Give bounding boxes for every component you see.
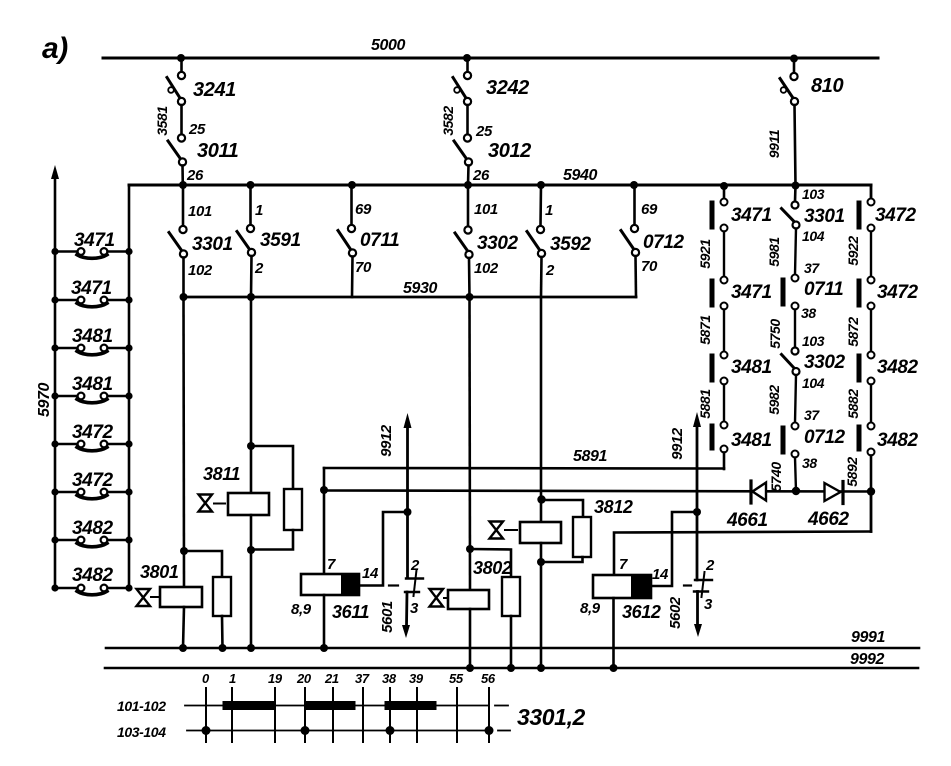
wire coil bottom to 9992	[540, 543, 543, 668]
wire 3592 column below 5930	[540, 297, 543, 522]
svg-text:3301,2: 3301,2	[517, 704, 586, 730]
wire stem 3302	[467, 185, 470, 226]
node cam 38	[386, 726, 395, 735]
node 3812 branch	[537, 495, 545, 503]
cam tick 0	[205, 688, 207, 742]
svg-text:5882: 5882	[845, 389, 861, 419]
wire branch to resistor	[470, 549, 511, 577]
svg-text:21: 21	[324, 671, 339, 686]
svg-text:3241: 3241	[193, 79, 236, 101]
svg-text:5921: 5921	[697, 239, 713, 269]
svg-text:103: 103	[802, 186, 825, 202]
wire branch to resistor top	[541, 500, 583, 517]
wire dash to socket	[389, 584, 398, 586]
wire coil bottom	[250, 515, 253, 648]
svg-text:3481: 3481	[731, 357, 772, 378]
svg-text:55: 55	[449, 671, 464, 686]
node 5930/3301	[180, 293, 188, 301]
socket contact 2-3	[405, 570, 423, 596]
contact 3481	[712, 352, 728, 385]
wire coil bottom to 9992	[612, 598, 615, 668]
svg-text:3482: 3482	[877, 430, 919, 451]
svg-text:5981: 5981	[766, 237, 782, 267]
wire 5891 corner down to coil	[323, 468, 326, 574]
svg-text:5750: 5750	[767, 319, 783, 349]
contact 3482	[859, 423, 875, 456]
svg-text:3802: 3802	[473, 558, 512, 578]
cam tick 20	[304, 688, 306, 742]
node 3811 bottom branch	[247, 546, 255, 554]
svg-text:25: 25	[475, 123, 493, 140]
node 9912R/14	[693, 508, 701, 516]
svg-text:101-102: 101-102	[117, 698, 166, 714]
svg-text:2: 2	[705, 557, 715, 574]
cam tick 39	[416, 688, 418, 742]
wire line 103-104	[187, 730, 492, 732]
svg-text:56: 56	[481, 671, 496, 686]
svg-text:3472: 3472	[877, 282, 919, 303]
svg-text:9911: 9911	[766, 129, 782, 158]
svg-text:101: 101	[188, 203, 212, 220]
svg-text:3481: 3481	[731, 430, 772, 451]
wire 3592 to bus 5930	[540, 257, 543, 297]
wire 3582	[466, 105, 469, 135]
wire diode line	[324, 491, 871, 492]
svg-text:3591: 3591	[260, 230, 301, 251]
coil 3611	[301, 574, 359, 595]
contact 3482	[859, 352, 875, 385]
contact 3472 rung5	[51, 440, 132, 450]
node 3812 bottom branch	[537, 558, 545, 566]
node 9991/3611	[320, 644, 328, 652]
wire resistor to 9992	[510, 616, 513, 668]
wire dash to socket	[684, 584, 691, 586]
cam tick 19	[274, 688, 276, 742]
cam segment 1-19	[227, 701, 270, 710]
svg-text:7: 7	[619, 556, 628, 573]
node 5940/0712	[630, 181, 638, 189]
node diode line left end	[320, 486, 328, 494]
contact 3472	[859, 199, 875, 232]
svg-text:3301: 3301	[192, 234, 233, 255]
switch 3591	[237, 225, 255, 256]
cam tick 55	[456, 688, 458, 742]
node diode-line/5740	[792, 487, 800, 495]
switch 3592	[527, 226, 545, 257]
svg-text:3472: 3472	[72, 422, 114, 443]
svg-text:3811: 3811	[203, 464, 240, 484]
svg-text:2: 2	[410, 557, 420, 574]
svg-text:3612: 3612	[622, 602, 661, 622]
contact 3241	[167, 72, 185, 105]
svg-text:104: 104	[802, 375, 825, 391]
contact 3482 rung7	[51, 536, 132, 546]
wire 5940 corner down	[870, 185, 873, 199]
contact 3472	[859, 277, 875, 310]
svg-text:0711: 0711	[360, 230, 399, 251]
resistor 3801	[213, 577, 231, 616]
svg-text:4661: 4661	[726, 510, 768, 531]
svg-text:3302: 3302	[804, 352, 846, 373]
svg-text:38: 38	[802, 455, 817, 471]
svg-text:9992: 9992	[850, 651, 884, 668]
svg-text:5922: 5922	[845, 236, 861, 266]
svg-text:3301: 3301	[804, 206, 845, 227]
contact 3471	[712, 199, 728, 232]
coil 3811	[228, 493, 269, 515]
svg-text:19: 19	[268, 671, 283, 686]
wire 5981	[795, 229, 796, 275]
wire resistor bottom to column	[251, 530, 293, 550]
svg-text:38: 38	[382, 671, 397, 686]
bus 5000	[103, 57, 878, 60]
wire coil to bus 9991	[183, 607, 184, 648]
cam tick 38	[389, 688, 391, 742]
wire 3591 column below 5930	[250, 297, 253, 493]
wire line 101-102	[185, 705, 489, 707]
node 5940/3592	[537, 181, 545, 189]
svg-text:0: 0	[202, 671, 210, 686]
svg-text:810: 810	[811, 75, 843, 97]
svg-text:9912: 9912	[669, 427, 686, 460]
wire 5872	[870, 310, 872, 352]
wire resistor to bus 9991	[221, 616, 224, 648]
valve symbol 3801	[137, 589, 160, 606]
svg-text:26: 26	[472, 167, 490, 184]
wire 5982	[795, 375, 796, 423]
switch 3301	[169, 226, 187, 258]
svg-text:103-104: 103-104	[117, 724, 166, 740]
contact 3242	[453, 72, 471, 105]
contact 3301	[782, 202, 800, 229]
wire 9911	[795, 105, 796, 185]
contact 3471 rung2	[51, 296, 132, 306]
wire 5922	[870, 232, 872, 277]
wire 5750	[794, 310, 796, 348]
svg-text:5930: 5930	[403, 280, 437, 297]
svg-text:9912: 9912	[378, 424, 395, 457]
svg-text:20: 20	[296, 671, 312, 686]
svg-text:37: 37	[804, 407, 820, 423]
svg-text:25: 25	[188, 121, 206, 138]
cam tick 37	[362, 688, 364, 742]
svg-text:5740: 5740	[768, 462, 784, 492]
svg-text:26: 26	[186, 167, 204, 184]
wire coil to 9992	[469, 609, 472, 668]
cam segment 21-37	[309, 701, 351, 710]
svg-text:5872: 5872	[845, 317, 861, 347]
wire stem 3301	[182, 185, 185, 226]
node bus5000/3241 junction	[177, 54, 185, 62]
node 5940/chain1	[720, 182, 728, 190]
contact 3481 rung4	[51, 392, 132, 402]
svg-text:3482: 3482	[877, 357, 919, 378]
valve symbol 3812	[490, 522, 518, 539]
resistor 3811	[284, 489, 302, 530]
wire 5892 to diode line	[870, 456, 873, 493]
wire stem 810	[793, 58, 796, 73]
svg-text:3812: 3812	[594, 497, 633, 517]
node 5930/3302	[466, 293, 474, 301]
bus 9991	[106, 647, 919, 650]
svg-text:3581: 3581	[154, 106, 170, 136]
svg-text:37: 37	[355, 671, 370, 686]
svg-text:39: 39	[409, 671, 424, 686]
switch 0712	[621, 225, 639, 256]
wire stem 0711	[350, 185, 353, 225]
svg-text:3242: 3242	[486, 77, 529, 99]
svg-text:1: 1	[545, 202, 553, 219]
wire	[794, 185, 797, 202]
wire to bus 5940	[181, 166, 184, 186]
wire stem 3592	[539, 185, 542, 226]
wire resistor bottom to column	[541, 557, 583, 562]
svg-text:9991: 9991	[851, 629, 885, 646]
wire 5740 to diode line	[795, 458, 796, 492]
contact 3472 rung6	[51, 488, 132, 498]
node 5940/3301	[179, 181, 187, 189]
wire 9912R vertical	[696, 424, 699, 580]
node 9991/3801	[179, 644, 187, 652]
svg-text:2: 2	[545, 262, 555, 279]
node 9991/resistor	[219, 644, 227, 652]
wire branch to resistor	[184, 551, 222, 577]
svg-text:70: 70	[355, 259, 372, 276]
wire 3302 to bus 5930	[468, 258, 471, 297]
contact 0711	[783, 275, 799, 310]
svg-text:1: 1	[229, 671, 236, 686]
bus 5930	[183, 296, 636, 299]
coil 3612	[593, 575, 651, 598]
wire stem 3242	[466, 58, 469, 72]
svg-text:5881: 5881	[697, 389, 713, 419]
wire 3591 to bus 5930	[250, 256, 253, 297]
svg-text:3: 3	[704, 596, 713, 613]
diode 4661	[751, 481, 766, 503]
wire stem 0712	[633, 185, 636, 225]
svg-text:69: 69	[355, 201, 372, 218]
wire 0712 to bus 5930 right corner	[634, 256, 637, 297]
resistor 3802	[502, 577, 520, 616]
svg-text:3801: 3801	[140, 562, 179, 582]
wire chain3 down to 532 line	[870, 491, 873, 532]
wire pin14 to 9912 line	[359, 512, 404, 586]
svg-text:a): a)	[42, 32, 68, 65]
svg-text:102: 102	[188, 262, 213, 279]
svg-text:0712: 0712	[804, 427, 846, 448]
svg-text:0712: 0712	[643, 232, 685, 253]
svg-text:102: 102	[474, 260, 499, 277]
svg-text:69: 69	[641, 201, 658, 218]
wire chain1 bottom to 5891	[723, 453, 726, 470]
svg-text:5602: 5602	[667, 596, 684, 629]
svg-text:4662: 4662	[807, 509, 850, 530]
contact 3471 rung1	[51, 248, 132, 258]
node 9992/3592col	[537, 664, 545, 672]
svg-text:5601: 5601	[379, 601, 396, 633]
svg-text:3472: 3472	[72, 470, 114, 491]
svg-text:3472: 3472	[875, 205, 917, 226]
svg-text:3302: 3302	[477, 233, 519, 254]
switch 0711	[338, 225, 356, 257]
svg-text:3481: 3481	[72, 374, 113, 395]
wire 3301 column below 5930	[182, 297, 185, 587]
node 9992/3612	[610, 664, 618, 672]
svg-text:101: 101	[474, 201, 498, 218]
node cam 20	[301, 726, 310, 735]
svg-text:5891: 5891	[573, 448, 607, 465]
coil 3812	[520, 522, 561, 543]
contact 3481 rung3	[51, 344, 132, 354]
svg-text:5871: 5871	[697, 315, 713, 345]
node cam 0	[202, 726, 211, 735]
node cam 56	[485, 726, 494, 735]
wire y532 line to 3612 pin7	[614, 532, 871, 576]
node 3802 branch	[466, 545, 474, 553]
cam tick 56	[488, 688, 490, 742]
node 3811 top branch	[247, 442, 255, 450]
svg-text:3012: 3012	[488, 140, 531, 162]
wire to bus 5940	[467, 166, 470, 186]
wire coil bottom to 9991	[323, 595, 326, 648]
svg-text:3482: 3482	[72, 518, 114, 539]
wire 5882	[870, 385, 872, 423]
svg-text:7: 7	[327, 556, 336, 573]
contact 3482 rung8	[51, 584, 132, 594]
wire 3301 to bus 5930	[182, 258, 185, 298]
node 9992/3802	[466, 664, 474, 672]
wire 5891	[324, 467, 724, 470]
node 9912L/14	[404, 508, 412, 516]
node diode-line/chain3	[867, 487, 875, 495]
wire branch to resistor top	[251, 446, 293, 489]
svg-text:38: 38	[801, 305, 816, 321]
svg-text:5892: 5892	[844, 457, 860, 487]
svg-text:70: 70	[641, 258, 658, 275]
cam tick 21	[332, 688, 334, 742]
contact 3011	[168, 134, 186, 165]
wire 9912 vertical	[406, 424, 409, 578]
contact 810	[780, 73, 798, 105]
cam segment 39-55	[389, 701, 432, 710]
wire 5601 vertical with arrow	[405, 592, 408, 626]
svg-text:14: 14	[362, 565, 379, 582]
wire right rail	[128, 185, 131, 588]
svg-text:8,9: 8,9	[291, 601, 312, 618]
svg-text:3592: 3592	[550, 234, 592, 255]
svg-text:3582: 3582	[440, 106, 456, 136]
wire pin14 to 9912R line	[651, 512, 693, 586]
contact 3481	[712, 422, 728, 453]
wire 3581	[180, 105, 183, 135]
svg-text:3: 3	[410, 600, 419, 617]
diode 4662	[825, 482, 844, 504]
valve symbol 3811	[199, 495, 226, 512]
contact 3302	[782, 348, 800, 376]
svg-text:14: 14	[652, 566, 669, 583]
node 9992/resistor	[507, 664, 515, 672]
node 5930/3591	[247, 293, 255, 301]
svg-text:103: 103	[802, 333, 825, 349]
svg-text:5970: 5970	[36, 383, 53, 417]
coil 3802	[448, 590, 489, 609]
svg-text:3471: 3471	[731, 205, 772, 226]
resistor 3812	[573, 517, 591, 557]
svg-text:3471: 3471	[71, 278, 112, 299]
svg-text:5982: 5982	[766, 385, 782, 415]
contact 0712	[783, 423, 799, 458]
node 3801 branch	[180, 547, 188, 555]
svg-text:5940: 5940	[563, 167, 597, 184]
svg-text:3611: 3611	[332, 602, 369, 622]
node 9991/3591col	[247, 644, 255, 652]
svg-text:0711: 0711	[804, 279, 843, 300]
svg-text:37: 37	[804, 260, 820, 276]
wire 0711 to bus 5930	[351, 257, 354, 298]
svg-text:3482: 3482	[72, 565, 114, 586]
svg-text:3011: 3011	[197, 140, 239, 162]
wire left rail with arrow 5970	[54, 178, 57, 588]
wire 5871	[723, 310, 725, 352]
wire 5881	[723, 385, 725, 422]
svg-text:5000: 5000	[371, 37, 405, 54]
node bus5000/810 junction	[790, 55, 798, 63]
node 5940/3591	[247, 181, 255, 189]
bus 5940	[129, 184, 871, 187]
node 5940/3302	[464, 181, 472, 189]
svg-text:3481: 3481	[72, 326, 113, 347]
wire 5921	[723, 232, 725, 277]
cam tick 1	[231, 688, 233, 742]
node bus5000/3242 junction	[463, 54, 471, 62]
svg-text:2: 2	[254, 260, 264, 277]
node 5940/0711	[348, 181, 356, 189]
svg-text:3471: 3471	[731, 282, 772, 303]
coil 3801	[160, 587, 202, 607]
socket contact 2-3	[694, 572, 712, 597]
svg-text:1: 1	[255, 202, 263, 219]
wire 3302 column below 5930	[468, 297, 471, 590]
contact 3012	[454, 134, 472, 165]
bus 9992	[105, 667, 918, 670]
switch 3302	[455, 226, 473, 258]
svg-text:104: 104	[802, 228, 825, 244]
node 5940/chain2	[792, 182, 800, 190]
svg-text:8,9: 8,9	[580, 600, 601, 617]
wire 5602 vertical with arrow	[696, 592, 699, 626]
contact 3471	[712, 277, 728, 310]
valve symbol 3802	[430, 589, 448, 607]
wire stem 3241	[180, 58, 183, 72]
wire stem 3591	[249, 185, 252, 225]
svg-text:3471: 3471	[74, 230, 115, 251]
wire	[723, 186, 726, 199]
